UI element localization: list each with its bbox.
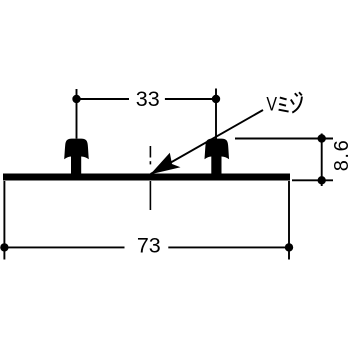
katakana zo dakuten tick 2 — [299, 92, 302, 95]
right mushroom rib — [205, 139, 230, 176]
dim 33 line right segment — [165, 98, 216, 100]
leader arrowhead — [150, 153, 180, 174]
dim 73 dot left — [0, 243, 8, 251]
dim 8.6 dot bottom — [318, 176, 326, 184]
leader line — [151, 110, 263, 174]
profile main bar — [3, 174, 290, 181]
dim 73 dot right — [285, 243, 293, 251]
dim 73 line right segment — [168, 246, 289, 248]
dim 33 extension line left — [76, 89, 78, 139]
centerline below bar — [149, 181, 151, 210]
katakana zo main stroke — [292, 97, 302, 113]
dim 33 dot right — [212, 95, 220, 103]
dim 73 extension line left — [3, 181, 5, 260]
dim 33 extension line right — [215, 89, 217, 140]
katakana mi stroke 2 — [279, 104, 286, 106]
svg-text:33: 33 — [136, 87, 160, 111]
katakana mi stroke 1 — [280, 98, 287, 100]
dim 8.6 extension line bottom — [292, 179, 333, 181]
katakana mi stroke 3 — [279, 110, 289, 112]
svg-text:8.6: 8.6 — [331, 139, 350, 172]
centerline dot — [149, 161, 151, 164]
dim 33 dot left — [72, 95, 80, 103]
dim 8.6 vertical line — [321, 134, 323, 187]
dim 33 line left segment — [77, 98, 130, 100]
centerline dash — [149, 146, 151, 158]
dim 8.6 dot top — [318, 134, 326, 142]
svg-text:73: 73 — [137, 234, 161, 258]
dim 73 extension line right — [288, 181, 290, 260]
dim 73 line left segment — [4, 246, 124, 248]
svg-text:V: V — [266, 93, 277, 115]
dim 8.6 extension line top — [235, 138, 333, 140]
left mushroom rib — [64, 139, 89, 176]
katakana zo dakuten tick 1 — [295, 93, 298, 96]
katakana zo left stroke — [291, 100, 294, 105]
